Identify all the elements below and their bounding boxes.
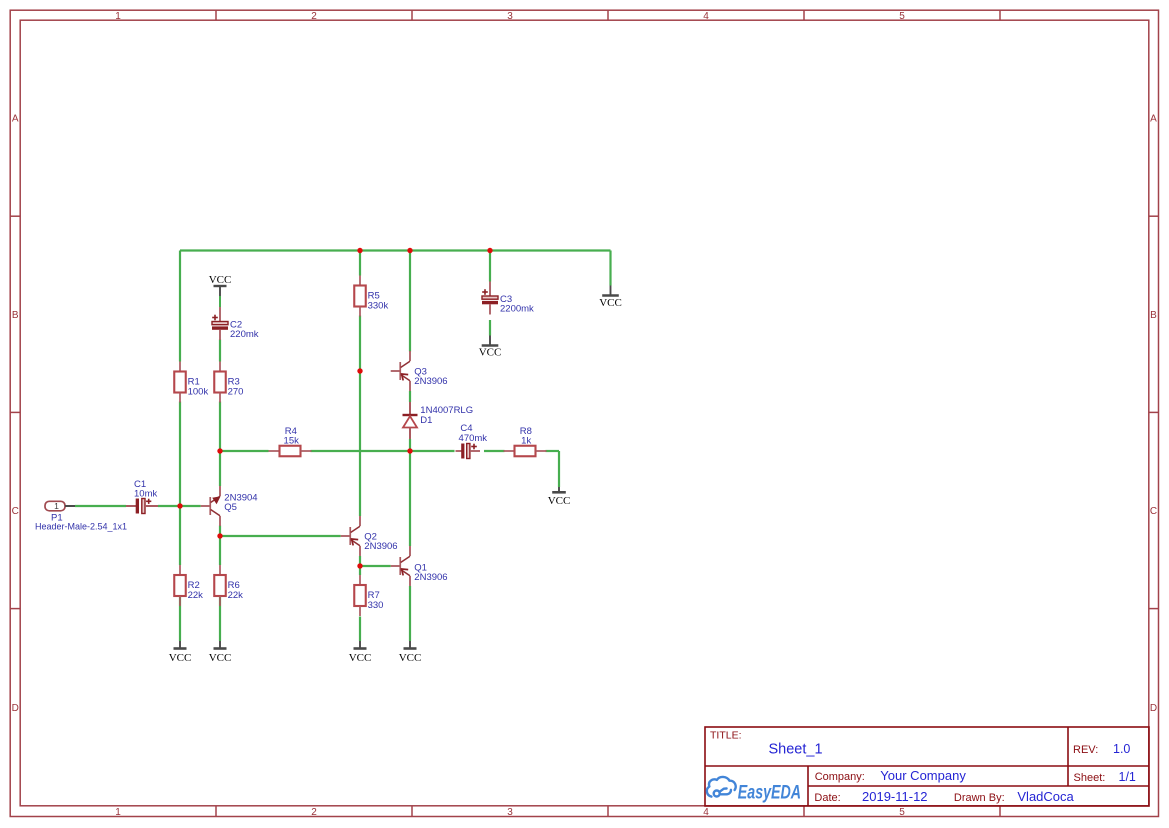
svg-text:C: C	[1150, 506, 1157, 517]
svg-text:VCC: VCC	[209, 274, 232, 286]
svg-text:VCC: VCC	[548, 495, 571, 507]
svg-text:15k: 15k	[284, 435, 300, 446]
svg-text:Sheet:: Sheet:	[1074, 772, 1106, 784]
svg-text:VladCoca: VladCoca	[1017, 789, 1074, 804]
svg-text:A: A	[1150, 114, 1157, 125]
svg-text:1: 1	[115, 11, 121, 22]
svg-text:B: B	[12, 310, 19, 321]
svg-text:VCC: VCC	[349, 652, 372, 664]
svg-text:Q5: Q5	[224, 502, 237, 513]
svg-text:330k: 330k	[368, 301, 389, 312]
svg-text:4: 4	[703, 11, 709, 22]
svg-text:1: 1	[115, 807, 121, 818]
svg-text:Sheet_1: Sheet_1	[769, 742, 823, 758]
svg-text:1/1: 1/1	[1119, 770, 1136, 784]
svg-text:2019-11-12: 2019-11-12	[862, 789, 928, 804]
svg-text:22k: 22k	[228, 590, 244, 601]
svg-text:VCC: VCC	[209, 652, 232, 664]
svg-text:470mk: 470mk	[459, 433, 488, 444]
svg-text:Drawn By:: Drawn By:	[954, 792, 1005, 804]
svg-text:VCC: VCC	[169, 652, 192, 664]
svg-text:2N3906: 2N3906	[414, 376, 447, 387]
svg-text:4: 4	[703, 807, 709, 818]
svg-text:D: D	[12, 703, 19, 714]
svg-text:1: 1	[54, 501, 59, 511]
svg-text:D: D	[1150, 703, 1157, 714]
svg-text:C: C	[12, 506, 19, 517]
svg-text:5: 5	[899, 807, 905, 818]
svg-text:22k: 22k	[188, 590, 204, 601]
svg-text:10mk: 10mk	[134, 488, 157, 499]
svg-text:Header-Male-2.54_1x1: Header-Male-2.54_1x1	[35, 522, 127, 532]
svg-text:Date:: Date:	[814, 792, 840, 804]
svg-text:330: 330	[368, 600, 384, 611]
svg-text:100k: 100k	[188, 387, 209, 398]
svg-text:VCC: VCC	[599, 297, 622, 309]
svg-text:TITLE:: TITLE:	[710, 730, 742, 742]
svg-text:2: 2	[311, 807, 317, 818]
svg-text:2N3906: 2N3906	[364, 541, 397, 552]
svg-text:EasyEDA: EasyEDA	[738, 781, 801, 803]
svg-text:2: 2	[311, 11, 317, 22]
svg-text:3: 3	[507, 11, 513, 22]
svg-text:Your Company: Your Company	[880, 768, 966, 783]
svg-text:VCC: VCC	[399, 652, 422, 664]
svg-text:REV:: REV:	[1073, 744, 1098, 756]
svg-text:1k: 1k	[521, 435, 531, 446]
svg-text:5: 5	[899, 11, 905, 22]
svg-text:220mk: 220mk	[230, 329, 259, 340]
svg-text:A: A	[12, 114, 19, 125]
svg-text:1.0: 1.0	[1113, 742, 1130, 756]
svg-text:3: 3	[507, 807, 513, 818]
svg-text:VCC: VCC	[479, 347, 502, 359]
svg-text:2N3906: 2N3906	[414, 572, 447, 583]
svg-text:2200mk: 2200mk	[500, 304, 534, 315]
svg-text:Company:: Company:	[815, 771, 865, 783]
svg-text:B: B	[1150, 310, 1157, 321]
svg-text:270: 270	[228, 387, 244, 398]
svg-text:D1: D1	[420, 415, 432, 426]
